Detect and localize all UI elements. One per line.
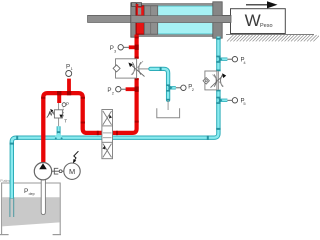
- check valve diamond FC2: [203, 78, 209, 84]
- gauge P2b on drain branch: [176, 85, 195, 93]
- gauge P2 at cylinder line lower: [107, 87, 126, 96]
- wire: thin line into mini tank: [167, 100, 169, 110]
- wire: teal drain pipe from FC1 to mini tank: [150, 69, 168, 100]
- pilot dashed RV1: [62, 107, 64, 117]
- ground hatching top right: [226, 35, 320, 42]
- svg-text:M: M: [69, 167, 75, 176]
- wire: red supply from pump up and to directional valve: [43, 93, 101, 162]
- gauge tiny P on relief pilot: [62, 103, 66, 107]
- node T teal tap to gauge P5: [218, 99, 227, 102]
- motor M: [64, 163, 80, 179]
- cylinder mount nubs top left: [132, 3, 137, 7]
- electric supply zigzag arrow: [74, 151, 79, 160]
- svg-text:1: 1: [71, 66, 74, 71]
- wire: red pipe below FC1 down and left to directional valve: [113, 78, 137, 133]
- relief valve RV1: [47, 103, 63, 126]
- gauge P3 top of supply: [66, 63, 74, 76]
- coupling shaft: [52, 168, 64, 174]
- cylinder left flange: [131, 3, 136, 37]
- gauge P1 at cylinder line upper: [110, 45, 129, 54]
- adjust stem FC1: [139, 68, 150, 70]
- node T teal tap to gauge P4: [218, 58, 227, 61]
- svg-text:2: 2: [192, 87, 195, 92]
- node T gauge P3 tap: [67, 79, 71, 94]
- suction pipe into tank: [41, 180, 45, 215]
- throttle FC2: [214, 74, 216, 86]
- load box W_Peso: [231, 9, 286, 34]
- rod side red chamber: [136, 6, 144, 34]
- check valve diamond FC1: [113, 65, 120, 72]
- pump P1: [34, 163, 51, 180]
- wire: teal stub relief to tank line: [57, 126, 61, 136]
- flow control valve FC1 with bypass check: [113, 59, 144, 78]
- mini tank symbol: [157, 108, 180, 118]
- top cell crossed arrows: [103, 111, 112, 125]
- motion arrow above load: [246, 1, 278, 8]
- flow control valve FC2 on return line: [203, 71, 223, 90]
- svg-text:3: 3: [114, 49, 117, 54]
- node T teal gauge tap: [168, 86, 176, 89]
- svg-text:dep: dep: [29, 192, 35, 196]
- node T relief tap: [57, 93, 61, 103]
- piston: [144, 6, 157, 34]
- svg-text:T: T: [64, 119, 67, 124]
- rod overlay across cylinder: [132, 16, 231, 23]
- cylinder right end cap: [213, 2, 222, 38]
- cylinder barrel: [131, 4, 222, 37]
- directional valve DV1 4/3: [102, 110, 113, 159]
- throttle FC1: [132, 62, 134, 74]
- svg-text:W: W: [245, 11, 261, 30]
- gauge P5: [227, 98, 246, 106]
- svg-text:2: 2: [112, 90, 115, 95]
- svg-text:P: P: [66, 63, 70, 70]
- node T red gauge tap upper: [129, 45, 136, 49]
- svg-text:Peso: Peso: [260, 23, 273, 29]
- middle cell through flows: [103, 132, 112, 134]
- svg-text:P: P: [66, 101, 69, 106]
- tank reservoir: [0, 183, 61, 235]
- piston rod: [88, 15, 231, 22]
- wire: teal return line from cylinder right port to tank: [12, 37, 219, 199]
- wire: red pipe cylinder port down to flow control FC1: [135, 35, 139, 59]
- gauge P4: [227, 57, 246, 66]
- bottom cell crossed arrows: [103, 144, 112, 158]
- svg-text:5: 5: [243, 101, 246, 106]
- node T red gauge tap lower: [126, 87, 136, 91]
- spring RV1: [48, 111, 54, 115]
- svg-text:P.atm: P.atm: [0, 179, 9, 183]
- svg-text:4: 4: [243, 60, 246, 65]
